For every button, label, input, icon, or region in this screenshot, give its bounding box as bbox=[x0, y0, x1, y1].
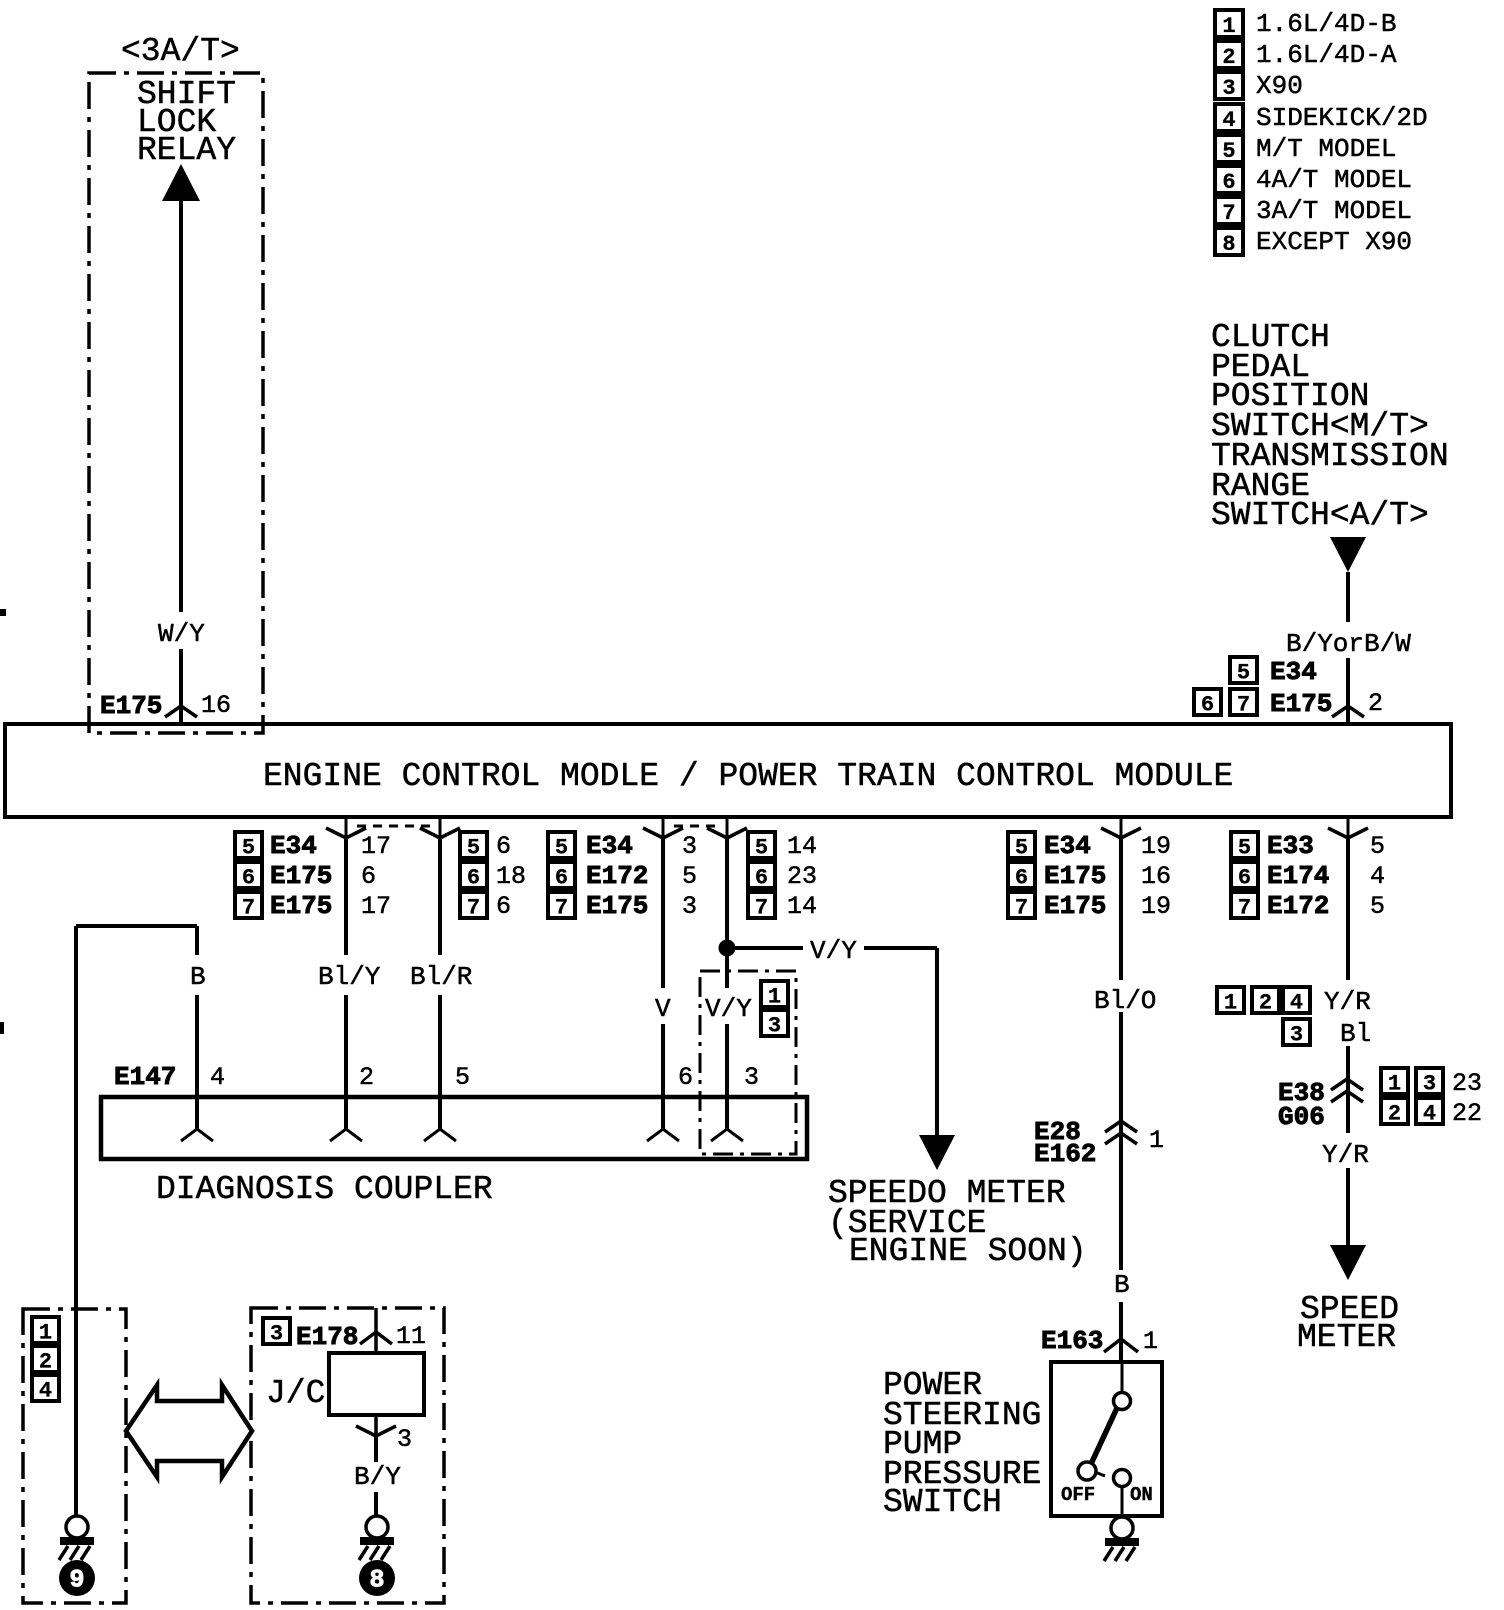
svg-text:3A/T MODEL: 3A/T MODEL bbox=[1256, 196, 1412, 226]
svg-text:17: 17 bbox=[361, 832, 391, 861]
wire B/Y to ground bbox=[374, 1436, 378, 1462]
svg-text:METER: METER bbox=[1297, 1319, 1396, 1356]
svg-text:E175: E175 bbox=[100, 691, 162, 721]
connector pins 6/18/6 (wire Bl/R) bbox=[460, 832, 487, 861]
svg-text:5: 5 bbox=[1222, 139, 1235, 164]
wire Bl/R bbox=[438, 838, 442, 955]
dashed connector link bbox=[357, 825, 430, 828]
svg-text:Bl/R: Bl/R bbox=[410, 962, 472, 992]
svg-text:EXCEPT X90: EXCEPT X90 bbox=[1256, 227, 1412, 257]
svg-text:SIDEKICK/2D: SIDEKICK/2D bbox=[1256, 103, 1428, 133]
arrow from clutch/range switch bbox=[1330, 537, 1366, 572]
legend code 2: 1.6L/4D-A bbox=[1215, 41, 1243, 70]
svg-text:4: 4 bbox=[1423, 1102, 1436, 1127]
connector labels E34/E172/E175 pins 3/5/3 (wire V) bbox=[548, 832, 575, 861]
svg-text:E147: E147 bbox=[114, 1062, 176, 1092]
svg-text:23: 23 bbox=[787, 862, 817, 891]
svg-text:9: 9 bbox=[69, 1566, 84, 1595]
svg-text:8: 8 bbox=[1222, 232, 1235, 257]
svg-text:SWITCH: SWITCH bbox=[883, 1484, 1002, 1521]
svg-text:E175: E175 bbox=[270, 891, 332, 921]
svg-text:V: V bbox=[655, 994, 671, 1024]
svg-text:E175: E175 bbox=[270, 861, 332, 891]
svg-text:4A/T MODEL: 4A/T MODEL bbox=[1256, 165, 1412, 195]
diagnosis coupler terminal fork at x=663 bbox=[647, 1129, 679, 1141]
svg-text:2: 2 bbox=[1388, 1102, 1401, 1127]
svg-text:3: 3 bbox=[768, 1014, 781, 1039]
wire Bl/O bbox=[1119, 838, 1123, 980]
switch lever bbox=[1091, 1408, 1117, 1464]
svg-text:E174: E174 bbox=[1267, 861, 1329, 891]
svg-text:<3A/T>: <3A/T> bbox=[121, 33, 240, 70]
svg-text:1: 1 bbox=[39, 1321, 52, 1346]
svg-text:6: 6 bbox=[1015, 866, 1028, 891]
shift lock relay dash-dot box bbox=[89, 73, 263, 733]
connector labels E34/E175/E175 pins 19/16/19 (wire Bl/O) bbox=[1008, 832, 1035, 861]
svg-text:E172: E172 bbox=[1267, 891, 1329, 921]
svg-text:E163: E163 bbox=[1041, 1326, 1103, 1356]
svg-text:2: 2 bbox=[359, 1063, 374, 1092]
svg-text:7: 7 bbox=[1238, 896, 1251, 921]
usage code 3 wire label Bl bbox=[1283, 1019, 1310, 1048]
svg-text:5: 5 bbox=[682, 862, 697, 891]
svg-text:22: 22 bbox=[1452, 1099, 1482, 1128]
svg-text:7: 7 bbox=[242, 896, 255, 921]
svg-text:5: 5 bbox=[755, 836, 768, 861]
svg-text:4: 4 bbox=[1370, 862, 1385, 891]
connector labels E33/E174/E172 pins 5/4/5 (wire Y/R) bbox=[1231, 832, 1258, 861]
arrow to speedo meter bbox=[919, 1135, 955, 1170]
diagnosis coupler terminal fork at x=197 bbox=[181, 1129, 213, 1141]
svg-text:16: 16 bbox=[1141, 862, 1171, 891]
wire to junction connector bbox=[374, 1308, 378, 1353]
switch ON contact bbox=[1114, 1470, 1131, 1487]
svg-text:7: 7 bbox=[1237, 693, 1250, 718]
svg-text:4: 4 bbox=[39, 1379, 52, 1404]
ECM pin connector fork at x=727 bbox=[726, 817, 729, 838]
svg-text:14: 14 bbox=[787, 892, 817, 921]
legend code 8: EXCEPT X90 bbox=[1215, 228, 1243, 257]
svg-text:3: 3 bbox=[270, 1322, 283, 1347]
svg-text:Bl/O: Bl/O bbox=[1094, 986, 1156, 1016]
svg-text:E175: E175 bbox=[586, 891, 648, 921]
svg-text:E162: E162 bbox=[1034, 1139, 1096, 1169]
legend code 6: 4A/T MODEL bbox=[1215, 166, 1243, 195]
svg-text:18: 18 bbox=[496, 862, 526, 891]
svg-text:Y/R: Y/R bbox=[1324, 987, 1371, 1017]
svg-text:1: 1 bbox=[1143, 1327, 1158, 1356]
svg-text:E178: E178 bbox=[296, 1322, 358, 1352]
svg-text:3: 3 bbox=[1290, 1023, 1303, 1048]
svg-text:14: 14 bbox=[787, 832, 817, 861]
svg-text:16: 16 bbox=[201, 691, 231, 720]
svg-text:E172: E172 bbox=[586, 861, 648, 891]
diagnosis coupler terminal fork at x=440 bbox=[424, 1129, 456, 1141]
arrow to shift lock relay bbox=[162, 164, 200, 201]
svg-text:6: 6 bbox=[361, 862, 376, 891]
wire B from ground up and over to diagnosis coupler bbox=[74, 926, 78, 1516]
svg-text:3: 3 bbox=[744, 1063, 759, 1092]
switch wire inside box bbox=[1121, 1362, 1124, 1392]
usage code 1 bbox=[761, 981, 788, 1010]
dashed connector link bbox=[674, 825, 716, 828]
svg-text:1: 1 bbox=[1388, 1072, 1401, 1097]
svg-text:5: 5 bbox=[1237, 661, 1250, 686]
legend code 1: 1.6L/4D-B bbox=[1215, 10, 1243, 39]
svg-text:5: 5 bbox=[1238, 836, 1251, 861]
edge mark bbox=[0, 1022, 4, 1034]
diagnosis coupler terminal fork at x=346 bbox=[330, 1129, 362, 1141]
svg-text:V/Y: V/Y bbox=[810, 936, 857, 966]
junction node on wire V/Y bbox=[719, 940, 736, 957]
ECM / PCM box bbox=[5, 724, 1451, 817]
equivalence double arrow bbox=[126, 1385, 252, 1477]
svg-text:6: 6 bbox=[467, 866, 480, 891]
ECM pin connector fork at x=440 bbox=[439, 817, 442, 838]
ground ID 9 bbox=[59, 1560, 95, 1596]
svg-text:5: 5 bbox=[467, 836, 480, 861]
svg-text:Bl/Y: Bl/Y bbox=[318, 962, 381, 992]
E38/G06 pins 23 (codes 1,3) bbox=[1381, 1068, 1408, 1097]
svg-text:1: 1 bbox=[768, 985, 781, 1010]
svg-text:G06: G06 bbox=[1278, 1102, 1325, 1132]
svg-text:ON: ON bbox=[1130, 1484, 1153, 1506]
svg-text:3: 3 bbox=[1423, 1072, 1436, 1097]
svg-text:E175: E175 bbox=[1270, 689, 1332, 719]
svg-text:V/Y: V/Y bbox=[705, 994, 752, 1024]
svg-text:6: 6 bbox=[555, 866, 568, 891]
svg-text:E34: E34 bbox=[270, 831, 317, 861]
svg-text:2: 2 bbox=[39, 1350, 52, 1375]
svg-text:B: B bbox=[190, 962, 206, 992]
ECM pin connector fork at x=663 bbox=[662, 817, 665, 838]
wire V/Y bbox=[725, 838, 729, 988]
svg-text:3: 3 bbox=[682, 832, 697, 861]
dash-dot box around V/Y wire bbox=[700, 971, 796, 1154]
diagnosis coupler terminal fork at x=727 bbox=[711, 1129, 743, 1141]
junction connector J/C box bbox=[329, 1353, 424, 1415]
svg-text:7: 7 bbox=[755, 896, 768, 921]
switch common contact bbox=[1114, 1393, 1131, 1410]
svg-text:6: 6 bbox=[1201, 693, 1214, 718]
switch OFF contact bbox=[1078, 1462, 1096, 1480]
wire B/Y or B/W bbox=[1346, 572, 1350, 622]
svg-text:E175: E175 bbox=[1044, 891, 1106, 921]
svg-text:23: 23 bbox=[1452, 1069, 1482, 1098]
svg-text:5: 5 bbox=[1370, 892, 1385, 921]
switch ground bbox=[1111, 1517, 1133, 1539]
svg-text:B/Y: B/Y bbox=[354, 1462, 401, 1492]
svg-text:E34: E34 bbox=[1044, 831, 1091, 861]
branch wire V/Y to speedo meter bbox=[727, 946, 803, 950]
wire V bbox=[661, 838, 665, 988]
ground ID 8 bbox=[359, 1560, 395, 1596]
svg-text:7: 7 bbox=[1222, 201, 1235, 226]
usage code 3 bbox=[761, 1010, 788, 1039]
svg-text:X90: X90 bbox=[1256, 71, 1303, 101]
svg-text:Y/R: Y/R bbox=[1322, 1140, 1369, 1170]
svg-text:5: 5 bbox=[455, 1063, 470, 1092]
usage code 2 bbox=[32, 1346, 59, 1375]
svg-text:6: 6 bbox=[678, 1063, 693, 1092]
usage codes 6,7 with connector E175 pin 2 bbox=[1194, 689, 1221, 718]
svg-text:6: 6 bbox=[242, 866, 255, 891]
switch wire to ground bbox=[1121, 1486, 1124, 1517]
svg-text:19: 19 bbox=[1141, 892, 1171, 921]
svg-text:4: 4 bbox=[1290, 991, 1303, 1016]
legend code 5: M/T MODEL bbox=[1215, 135, 1243, 164]
svg-text:3: 3 bbox=[397, 1425, 412, 1454]
svg-text:SWITCH<A/T>: SWITCH<A/T> bbox=[1211, 497, 1429, 534]
usage code 1 bbox=[32, 1317, 59, 1346]
ground for wire B bbox=[66, 1516, 88, 1538]
wire W/Y to shift lock relay bbox=[179, 199, 183, 612]
svg-text:8: 8 bbox=[369, 1566, 384, 1595]
svg-text:OFF: OFF bbox=[1061, 1484, 1095, 1506]
connector labels E34/E175/E175 pins 17/6/17 (wire Bl/Y) bbox=[235, 832, 262, 861]
arrow to speed meter bbox=[1330, 1245, 1366, 1280]
svg-text:6: 6 bbox=[1238, 866, 1251, 891]
svg-text:11: 11 bbox=[396, 1322, 426, 1351]
diagnosis coupler box bbox=[101, 1097, 807, 1159]
svg-text:5: 5 bbox=[555, 836, 568, 861]
usage codes 1,2,4 wire label Y/R bbox=[1217, 987, 1244, 1016]
power steering pump pressure switch box bbox=[1051, 1362, 1162, 1516]
ground for wire B/Y bbox=[366, 1516, 388, 1538]
svg-text:7: 7 bbox=[467, 896, 480, 921]
connector pins 14/23/14 (wire V/Y) bbox=[748, 832, 775, 861]
svg-text:5: 5 bbox=[1015, 836, 1028, 861]
svg-text:B: B bbox=[1114, 1270, 1130, 1300]
svg-text:M/T MODEL: M/T MODEL bbox=[1256, 134, 1396, 164]
svg-text:E175: E175 bbox=[1044, 861, 1106, 891]
svg-text:2: 2 bbox=[1222, 45, 1235, 70]
svg-text:6: 6 bbox=[1222, 170, 1235, 195]
svg-text:ENGINE CONTROL MODLE / POWER T: ENGINE CONTROL MODLE / POWER TRAIN CONTR… bbox=[263, 758, 1233, 795]
svg-text:W/Y: W/Y bbox=[158, 619, 205, 649]
svg-text:1: 1 bbox=[1222, 14, 1235, 39]
svg-text:J/C: J/C bbox=[266, 1375, 325, 1412]
svg-text:2: 2 bbox=[1259, 991, 1272, 1016]
svg-text:4: 4 bbox=[210, 1063, 225, 1092]
svg-text:6: 6 bbox=[496, 832, 511, 861]
switch OFF contact tick bbox=[1095, 1472, 1105, 1476]
edge mark bbox=[0, 609, 6, 616]
J/C pin 3 fork bbox=[374, 1415, 378, 1436]
svg-text:2: 2 bbox=[1368, 689, 1383, 718]
svg-text:ENGINE SOON): ENGINE SOON) bbox=[849, 1233, 1087, 1270]
svg-text:5: 5 bbox=[242, 836, 255, 861]
svg-text:7: 7 bbox=[1015, 896, 1028, 921]
svg-text:7: 7 bbox=[555, 896, 568, 921]
svg-text:E34: E34 bbox=[1270, 657, 1317, 687]
svg-text:6: 6 bbox=[755, 866, 768, 891]
svg-text:1.6L/4D-B: 1.6L/4D-B bbox=[1256, 9, 1396, 39]
svg-text:B/YorB/W: B/YorB/W bbox=[1286, 629, 1411, 659]
legend code 3: X90 bbox=[1215, 72, 1243, 101]
legend code 7: 3A/T MODEL bbox=[1215, 197, 1243, 226]
ECM pin connector fork at x=1121 bbox=[1120, 817, 1123, 838]
svg-text:19: 19 bbox=[1141, 832, 1171, 861]
dash-dot box usage codes 1/2/4 bbox=[23, 1309, 126, 1603]
usage code 4 bbox=[32, 1375, 59, 1404]
svg-text:1.6L/4D-A: 1.6L/4D-A bbox=[1256, 40, 1397, 70]
svg-text:1: 1 bbox=[1224, 991, 1237, 1016]
ECM pin connector fork at x=1348 bbox=[1347, 817, 1350, 838]
svg-text:E34: E34 bbox=[586, 831, 633, 861]
svg-text:E33: E33 bbox=[1267, 831, 1314, 861]
usage code 5 with connector E34 bbox=[1230, 657, 1257, 686]
ECM pin connector fork at x=346 bbox=[345, 817, 348, 838]
svg-text:5: 5 bbox=[1370, 832, 1385, 861]
svg-text:RELAY: RELAY bbox=[137, 132, 236, 169]
E38/G06 pins 22 (codes 2,4) bbox=[1381, 1098, 1408, 1127]
svg-text:DIAGNOSIS COUPLER: DIAGNOSIS COUPLER bbox=[156, 1171, 493, 1208]
svg-text:17: 17 bbox=[361, 892, 391, 921]
svg-text:3: 3 bbox=[1222, 76, 1235, 101]
svg-text:6: 6 bbox=[496, 892, 511, 921]
svg-text:4: 4 bbox=[1222, 108, 1235, 133]
wire Y/R to speed meter bbox=[1346, 838, 1350, 980]
svg-text:3: 3 bbox=[682, 892, 697, 921]
usage code 3 connector E178 pin 11 bbox=[263, 1318, 290, 1347]
wire Bl/Y bbox=[344, 838, 348, 955]
svg-text:Bl: Bl bbox=[1340, 1019, 1371, 1049]
svg-text:1: 1 bbox=[1149, 1126, 1164, 1155]
legend code 4: SIDEKICK/2D bbox=[1215, 104, 1243, 133]
dash-dot box junction connector (code 3) bbox=[251, 1308, 444, 1603]
